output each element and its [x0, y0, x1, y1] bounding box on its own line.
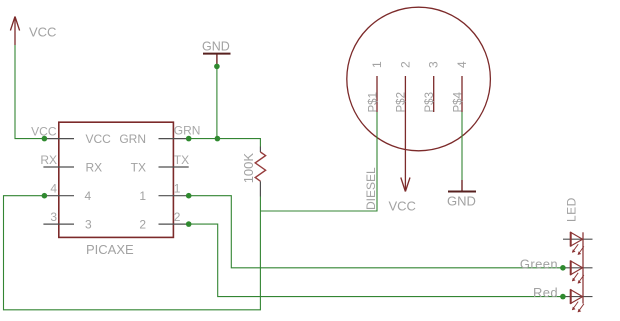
- IC U1 PICAXE body: [59, 122, 174, 237]
- svg-text:TX: TX: [174, 153, 189, 167]
- svg-text:RX: RX: [86, 160, 103, 174]
- wire net from IC pin 4 (left, down, along bottom to resistor bottom): [4, 196, 261, 310]
- pin 3 (IC left, row 4): [43, 223, 74, 225]
- pin GRN (IC right, row 1): [159, 138, 189, 140]
- svg-text:4: 4: [50, 182, 57, 196]
- svg-text:VCC: VCC: [29, 25, 56, 40]
- svg-text:VCC: VCC: [86, 132, 112, 146]
- wire: connector pin P$4 down to ground: [461, 112, 463, 180]
- connector J1 circle body: [347, 7, 491, 151]
- svg-text:VCC: VCC: [389, 199, 416, 214]
- svg-text:RX: RX: [40, 153, 57, 167]
- svg-text:LED: LED: [565, 197, 579, 222]
- svg-text:1: 1: [174, 182, 181, 196]
- ground symbol GND (below connector): [447, 180, 476, 209]
- svg-text:4: 4: [455, 61, 469, 68]
- svg-text:3: 3: [50, 210, 57, 224]
- node junction below GND: [214, 64, 220, 70]
- svg-text:TX: TX: [131, 160, 146, 174]
- resistor R1 leads: [259, 147, 261, 197]
- svg-text:DIESEL: DIESEL: [364, 167, 378, 210]
- svg-text:100K: 100K: [241, 153, 256, 184]
- wire VCC net: arrow to IC pin VCC: [15, 45, 44, 139]
- LED D2 (Green): [563, 261, 593, 284]
- svg-text:P$3: P$3: [424, 92, 436, 112]
- resistor R1 zigzag: [255, 152, 265, 181]
- svg-text:1: 1: [370, 61, 384, 68]
- wire GRN net: IC GRN pin to resistor top: [189, 139, 261, 147]
- wire Red net: IC pin 2 to LED3: [189, 224, 563, 297]
- connector pin P$2 line: [404, 76, 406, 112]
- junction node IC pin VCC: [42, 136, 48, 142]
- svg-text:2: 2: [139, 217, 146, 231]
- svg-text:4: 4: [85, 189, 92, 203]
- junction node IC pin 4: [42, 193, 48, 199]
- pin 2 (IC right, row 4): [159, 223, 189, 225]
- wire GND net to GRN wire: [216, 66, 218, 138]
- svg-text:Green: Green: [520, 257, 558, 272]
- svg-text:GRN: GRN: [174, 123, 201, 137]
- svg-text:2: 2: [174, 210, 181, 224]
- supply symbol VCC (top left arrow): [10, 17, 19, 46]
- LED D1 (top): [563, 232, 593, 255]
- svg-text:2: 2: [398, 61, 412, 68]
- svg-text:P$4: P$4: [452, 91, 464, 112]
- connector pin P$1 line: [376, 76, 378, 112]
- svg-text:GND: GND: [447, 194, 476, 209]
- junction node IC pin 1: [186, 193, 192, 199]
- wire Green net: IC pin 1 to LED2: [189, 196, 563, 268]
- svg-text:3: 3: [85, 217, 92, 231]
- svg-text:1: 1: [139, 189, 146, 203]
- junction node Green net at LED D2: [560, 265, 566, 271]
- svg-text:GND: GND: [202, 40, 230, 54]
- pin 1 (IC right, row 3): [159, 195, 189, 197]
- junction node GND drop on GRN wire: [215, 136, 221, 142]
- svg-text:P$1: P$1: [367, 92, 379, 112]
- junction node Red net at LED D3: [560, 294, 566, 300]
- pin VCC (IC left, row 1): [43, 138, 74, 140]
- LED D3 (Red): [563, 289, 593, 312]
- pin RX (IC left, row 2): [43, 166, 74, 168]
- junction node IC pin 2: [186, 221, 192, 227]
- svg-text:PICAXE: PICAXE: [86, 242, 134, 257]
- connector pin P$4 line: [461, 76, 463, 112]
- junction node IC pin GRN: [186, 136, 192, 142]
- supply symbol VCC (down arrow at connector pin P$2): [401, 112, 410, 192]
- svg-text:P$2: P$2: [396, 92, 408, 112]
- ground symbol GND (top): [202, 40, 231, 67]
- pin TX (IC right, row 2): [159, 166, 189, 168]
- svg-text:3: 3: [427, 61, 441, 68]
- connector pin P$3 line: [433, 76, 435, 112]
- wire: connector pin P$1 down to resistor bottom: [260, 112, 377, 211]
- pin 4 (IC left, row 3): [43, 195, 74, 197]
- svg-text:Red: Red: [533, 285, 558, 300]
- svg-text:GRN: GRN: [119, 132, 146, 146]
- LED chain common rail: [582, 232, 584, 303]
